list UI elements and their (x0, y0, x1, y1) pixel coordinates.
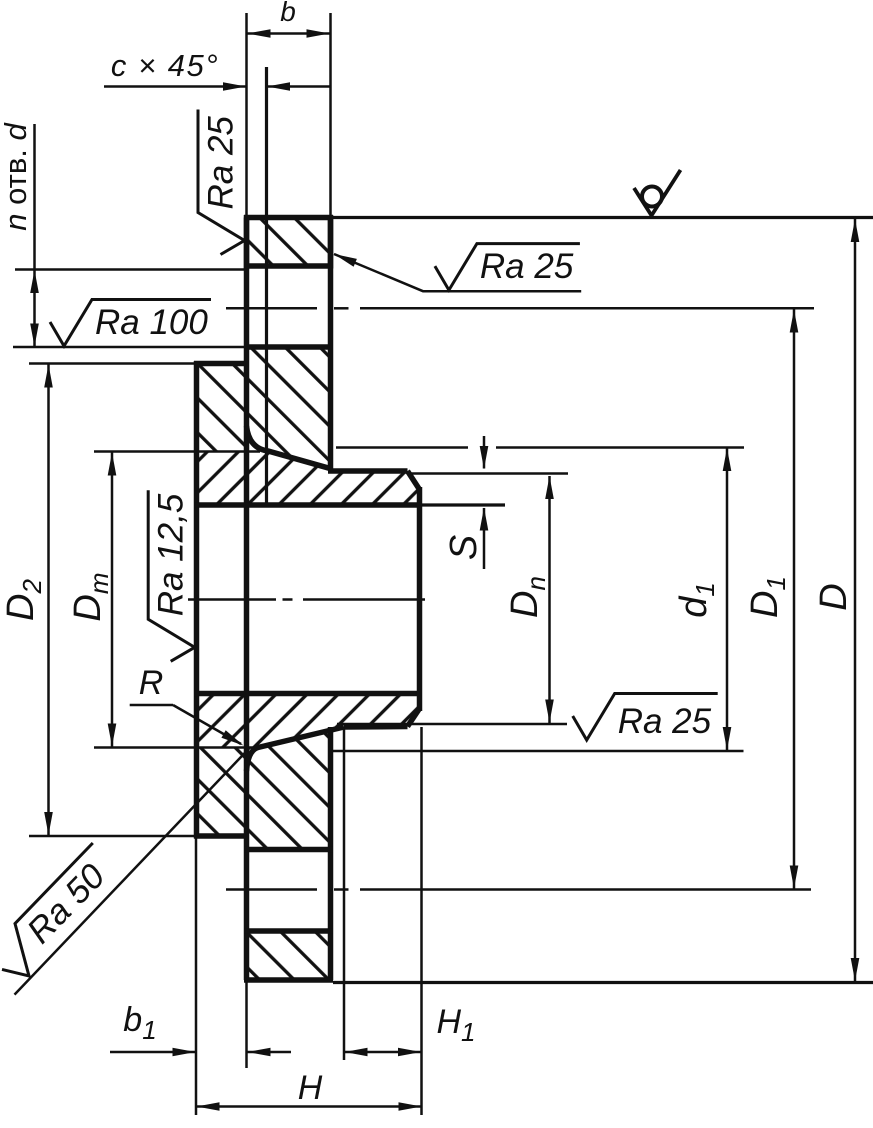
extension line: d1/S top, right part (496, 446, 744, 449)
part edge: bore top surface (194, 502, 422, 508)
extension line: rim right face above part (b dim) (329, 13, 332, 218)
extension line: D2 bottom (plate bottom edge) (29, 835, 194, 838)
part edge: bottom taper and fillet (247, 727, 345, 771)
section hatch: lower hub/neck wall (197, 694, 420, 748)
dimension n otv. d: line and arrows (33, 124, 36, 347)
svg-text:Ra 25: Ra 25 (202, 116, 241, 210)
extension line: flange OD top edge, to right sheet edge (333, 216, 873, 219)
section hatch: upper hub/neck wall (197, 428, 420, 505)
part edge: neck end chamfer top (408, 471, 420, 490)
dimension D1: line and arrows (793, 309, 796, 889)
extension line: rim left face above part (b / c dims) (245, 13, 248, 218)
surface finish symbol: general mark with circle on top edge (634, 170, 681, 216)
svg-text:Ra 25: Ra 25 (480, 247, 574, 286)
dimension D2: line and arrows (47, 364, 50, 836)
part edge: rim right face lower segment (328, 727, 334, 980)
dimension H1: line and arrows (344, 1051, 422, 1054)
extension line: Dn bottom (neck OD) (337, 723, 567, 726)
centre line: bolt hole axis top (dash-dot + D1 extension) (226, 307, 317, 310)
svg-text:b: b (280, 0, 296, 27)
extension line: hub end face below part (H1 / H dims) (420, 727, 423, 1115)
section hatch: bottom rim (between bolt holes, lower) (247, 931, 331, 980)
part edge: plate bottom edge (194, 833, 249, 839)
section hatch: upper flange body (197, 347, 331, 468)
svg-text:Ra 100: Ra 100 (95, 303, 208, 342)
part edge: bore bottom surface (194, 691, 422, 697)
extension line: chamfer edge vertical (265, 67, 268, 505)
dimension d1: line and arrows (726, 448, 729, 751)
leader: Ra 25 top right callout to rim face (334, 254, 581, 291)
part edge: bolt hole bottom edge (lower) (244, 928, 333, 934)
centre line: main part axis (dash-dot) (188, 598, 276, 601)
extension line: bolt hole top edge, to left (15, 268, 244, 271)
part edge: top rim rectangle (section through bolt circle, upper) (244, 215, 333, 269)
dimension D: line and arrows (854, 219, 857, 982)
extension line: Dn top (neck OD) (410, 472, 568, 475)
svg-text:R: R (139, 664, 164, 702)
svg-text:Ra 12,5: Ra 12,5 (152, 493, 191, 616)
svg-text:c × 45°: c × 45° (111, 48, 219, 83)
section hatch: top rim (between bolt holes, upper) (247, 218, 331, 267)
section hatch: lower flange body (197, 731, 331, 850)
extension line: flange OD bottom edge, to right sheet edge (333, 981, 873, 984)
dimension Dm: line and arrows (111, 452, 114, 747)
part edge: neck top outer surface (328, 468, 408, 474)
part edge: neck bottom outer surface (344, 724, 408, 730)
extension line: bore line extended right for S (422, 503, 506, 506)
part edge: hub end face (417, 487, 423, 711)
surface finish symbol: Ra 25 (rotated, top left) (198, 110, 245, 255)
svg-text:D: D (813, 583, 855, 610)
dimension Dn: line and arrows (548, 476, 551, 723)
part edge: plate top edge (194, 361, 249, 367)
svg-text:H: H (298, 1069, 323, 1107)
extension line: plate left face below part (b1 / H dims) (195, 836, 198, 1115)
surface finish symbol: Ra 25 (bottom right) (573, 694, 718, 742)
extension line: taper knee below part (H1 dim) (343, 727, 346, 1060)
dimension c x 45: leader, line and arrows (104, 85, 247, 88)
surface finish symbol: Ra 12,5 (rotated, bore) (148, 490, 195, 661)
extension line: Dm bottom (94, 746, 258, 749)
part edge: bolt hole bottom edge (upper) (244, 344, 333, 350)
svg-text:n отв. d: n отв. d (0, 121, 33, 230)
dimension b: line and arrows (247, 32, 331, 35)
surface finish symbol: Ra 25 (top right) (435, 244, 580, 291)
surface finish symbol: Ra 50 (rotated 46deg, fillet) (0, 843, 126, 986)
dimension S: lines and arrows (outside) (483, 436, 486, 469)
svg-text:S: S (443, 535, 485, 560)
svg-text:Ra 25: Ra 25 (618, 702, 712, 741)
surface finish symbol: Ra 100 (left) (50, 300, 211, 347)
extension line: d1/S top, left part (336, 446, 468, 449)
part edge: plate left face (gasket face) (194, 361, 200, 839)
extension line: d1 bottom (333, 750, 744, 753)
part edge: rim left face (full height) (244, 218, 250, 981)
extension line: rim left face below part (b1 dim) (245, 980, 248, 1068)
part edge: flange OD bottom edge (244, 977, 333, 983)
centre line: bolt hole axis bottom (dash-dot + D1 extension) (226, 888, 317, 891)
part edge: bolt hole top edge (lower) (244, 847, 333, 853)
extension line: D2 top (plate top edge) (29, 362, 194, 365)
part edge: neck end chamfer bottom (408, 709, 420, 727)
part edge: rim right face upper segment (328, 218, 334, 471)
part edge: top fillet and taper to neck (247, 426, 330, 468)
dimension b1: lines and arrows (outside) (110, 1051, 196, 1054)
extension line: bolt hole bottom edge, to left (13, 346, 244, 349)
dimension H: line and arrows (196, 1105, 422, 1108)
leader: Ra 50 callout to bottom fillet (15, 748, 251, 995)
leader: R fillet radius callout (130, 704, 173, 707)
extension line: Dm top (94, 450, 260, 453)
